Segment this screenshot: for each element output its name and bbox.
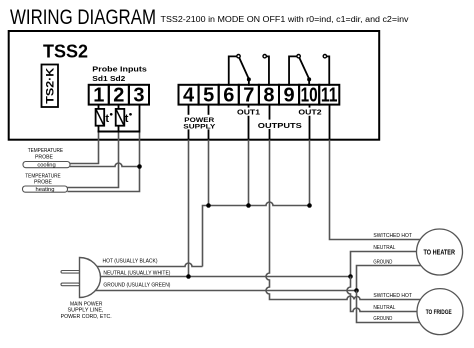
label TEMPERATURE PROBE heating: [25, 173, 61, 185]
badge TS2-K: [42, 65, 59, 108]
svg-text:SWITCHED HOT: SWITCHED HOT: [373, 293, 412, 299]
svg-text:1: 1: [93, 85, 104, 107]
wire terminal 10 internal: [309, 105, 311, 140]
svg-text:t: t: [125, 113, 129, 125]
label MAIN POWER SUPPLY LINE: [61, 301, 112, 320]
hot mains wire with hop over wire 4: [95, 263, 203, 267]
relay K1 arm contact dot: [247, 77, 251, 81]
terminal 10: [299, 85, 319, 107]
svg-text:8: 8: [263, 85, 274, 107]
label t1: [105, 113, 112, 125]
svg-text:7: 7: [243, 85, 254, 107]
svg-text:TO FRIDGE: TO FRIDGE: [426, 310, 452, 316]
fridge neutral wire with hops: [347, 277, 445, 312]
svg-text:5: 5: [203, 85, 214, 107]
wire cooling probe bottom to node T3 with hop: [70, 163, 140, 167]
svg-text:TS2·K: TS2·K: [45, 68, 57, 104]
label POWER SUPPLY: [183, 117, 216, 130]
svg-text:PROBE: PROBE: [35, 154, 54, 160]
svg-text:cooling: cooling: [37, 163, 55, 169]
relay K1 common riser from terminal 6: [229, 56, 237, 85]
relay K2 common riser from terminal 9: [289, 56, 297, 85]
thermistor RT2: [116, 105, 125, 133]
label OUT2 background: [298, 108, 322, 116]
relay K1 arm: [239, 58, 249, 79]
svg-text:TO HEATER: TO HEATER: [424, 250, 456, 257]
neutral mains wire: [98, 276, 351, 278]
mains plug body: [80, 258, 101, 298]
junction feeder terminal 5: [206, 203, 211, 208]
label TEMPERATURE PROBE cooling: [28, 148, 64, 160]
svg-text:PROBE: PROBE: [34, 179, 53, 185]
wire cooling probe top to terminal 1: [70, 133, 99, 164]
svg-text:SUPPLY: SUPPLY: [183, 123, 216, 130]
terminal 8: [259, 85, 279, 107]
relay K2 open contact: [323, 55, 326, 58]
wire terminal 10 to hot feeder: [309, 140, 311, 206]
fridge ground wire: [357, 291, 446, 323]
heater neutral tap wire: [351, 252, 446, 277]
fridge circle: [417, 289, 463, 335]
terminal 1: [89, 85, 109, 107]
terminal 9: [279, 85, 299, 107]
heater ground tap wire: [357, 266, 446, 291]
svg-text:WIRING DIAGRAM: WIRING DIAGRAM: [10, 5, 156, 29]
terminal 11: [319, 85, 339, 107]
junction feeder terminal 7: [246, 203, 251, 208]
svg-text:GROUND: GROUND: [373, 316, 392, 322]
svg-text:3: 3: [133, 85, 144, 107]
svg-text:9: 9: [283, 85, 294, 107]
svg-text:2: 2: [113, 85, 124, 107]
thermistor RT1: [96, 105, 105, 133]
relay K2 arm: [299, 58, 309, 79]
heating probe box: [23, 186, 68, 192]
svg-text:11: 11: [321, 85, 338, 107]
svg-text:TEMPERATURE: TEMPERATURE: [28, 148, 64, 154]
terminal 7: [239, 85, 259, 107]
wire heating probe top to terminal 2: [68, 133, 119, 188]
terminal 4: [179, 85, 199, 107]
svg-text:MAIN POWER: MAIN POWER: [70, 301, 103, 307]
relay K1 stub to terminal 7: [248, 79, 250, 85]
svg-text:NEUTRAL: NEUTRAL: [373, 245, 395, 251]
relay K2 arm contact dot: [307, 77, 311, 81]
junction ground tap: [354, 288, 359, 293]
svg-text:POWER CORD, ETC.: POWER CORD, ETC.: [61, 314, 112, 320]
svg-text:GROUND: GROUND: [373, 260, 392, 266]
label t2: [125, 113, 132, 125]
hot feeder wire with hop over wire 8: [203, 202, 310, 267]
svg-text:4: 4: [183, 85, 195, 107]
svg-text:OUT1: OUT1: [237, 110, 260, 117]
wire terminal 8 to fridge switched hot with hops: [266, 140, 445, 300]
junction neutral tap: [348, 274, 353, 279]
wire terminal 3 to bus: [139, 105, 141, 133]
wire terminal 7 internal: [248, 105, 250, 140]
wire terminal 4 internal: [188, 105, 190, 140]
controller outline U1: [9, 31, 380, 140]
relay K1 open contact riser from terminal 8: [266, 56, 269, 85]
svg-text:Probe Inputs: Probe Inputs: [92, 64, 147, 73]
wire terminal 5 to hot feeder: [208, 140, 210, 206]
junction neutral terminal 4: [186, 274, 191, 279]
relay K2 pivot contact: [297, 55, 300, 58]
relay K1 pivot contact: [237, 55, 240, 58]
wire heating probe bottom to common node T3: [68, 133, 140, 192]
svg-text:NEUTRAL (USUALLY WHITE): NEUTRAL (USUALLY WHITE): [103, 271, 170, 277]
svg-text:OUT2: OUT2: [298, 110, 321, 117]
svg-text:NEUTRAL: NEUTRAL: [373, 305, 395, 311]
svg-text:heating: heating: [35, 187, 54, 193]
svg-text:t: t: [105, 113, 109, 125]
svg-text:SWITCHED HOT: SWITCHED HOT: [373, 233, 412, 239]
wire terminal 11 internal: [329, 105, 331, 140]
junction feeder terminal 10: [307, 203, 312, 208]
svg-text:TSS2: TSS2: [43, 41, 88, 61]
ground mains wire: [95, 290, 357, 292]
wire terminal 4 to neutral: [188, 140, 190, 277]
junction probe common: [137, 164, 142, 169]
plug prong 1: [61, 271, 80, 274]
terminal 3: [129, 85, 149, 107]
relay K1 open contact: [263, 55, 266, 58]
terminal 6: [219, 85, 239, 107]
svg-text:6: 6: [223, 85, 234, 107]
cooling probe box: [23, 162, 70, 168]
terminal 2: [109, 85, 129, 107]
label OUTPUTS background: [257, 120, 303, 129]
plug prong 2: [61, 283, 80, 286]
svg-text:10: 10: [301, 85, 318, 107]
svg-text:GROUND (USUALLY GREEN): GROUND (USUALLY GREEN): [103, 282, 170, 288]
terminal 5: [199, 85, 219, 107]
relay K2 open contact riser from terminal 11: [327, 56, 330, 85]
wire terminal 5 internal: [208, 105, 210, 140]
wire terminal 7 to hot feeder: [248, 140, 250, 206]
wire terminal 11 to heater switched hot: [330, 140, 446, 240]
relay K2 stub to terminal 10: [308, 79, 310, 85]
wire terminal 8 internal: [269, 105, 271, 140]
label POWER SUPPLY background: [183, 115, 217, 130]
svg-text:Sd1 Sd2: Sd1 Sd2: [92, 74, 125, 83]
label OUT1 background: [237, 108, 261, 116]
heater circle: [417, 229, 463, 275]
svg-text:HOT (USUALLY BLACK): HOT (USUALLY BLACK): [103, 259, 158, 265]
svg-text:SUPPLY LINE,: SUPPLY LINE,: [68, 308, 104, 314]
svg-text:TSS2-2100 in MODE ON OFF1 with: TSS2-2100 in MODE ON OFF1 with r0=ind, c…: [161, 15, 409, 24]
svg-text:OUTPUTS: OUTPUTS: [258, 121, 302, 130]
probe common bus: [98, 131, 141, 133]
